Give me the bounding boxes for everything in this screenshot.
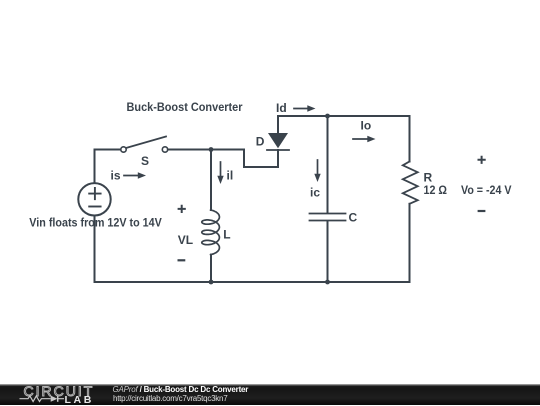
voltage source minus sign xyxy=(89,206,100,208)
label minus VL xyxy=(179,259,185,261)
svg-text:D: D xyxy=(256,135,265,149)
current arrow is xyxy=(124,175,139,177)
resistor R zigzag xyxy=(403,162,418,204)
svg-text:Id: Id xyxy=(276,101,287,115)
wire right rail top xyxy=(409,116,411,162)
svg-text:12 Ω: 12 Ω xyxy=(424,183,448,197)
node B junction dot top of capacitor xyxy=(325,114,330,119)
label plus Vo xyxy=(479,157,485,163)
switch S left contact xyxy=(121,147,126,152)
wire bottom rail xyxy=(95,281,410,283)
wire inductor to bottom rail xyxy=(210,255,212,282)
svg-text:VL: VL xyxy=(178,233,193,247)
label minus Vo xyxy=(479,210,485,212)
wire diode up to top rail xyxy=(278,116,328,133)
wire switch to node A xyxy=(168,149,244,151)
wire step to diode xyxy=(244,150,278,168)
inductor L coil xyxy=(202,210,220,255)
svg-text:ic: ic xyxy=(310,186,320,200)
footer logo schematic line with resistor and diode xyxy=(19,394,67,404)
footer logo LAB xyxy=(65,394,94,406)
current arrow ic xyxy=(317,160,319,175)
wire node A down to inductor xyxy=(210,150,212,211)
switch S right contact xyxy=(162,147,167,152)
svg-text:Buck-Boost Converter: Buck-Boost Converter xyxy=(127,100,243,114)
voltage source V1 circle xyxy=(78,183,110,215)
node inductor bottom junction dot xyxy=(209,280,214,285)
svg-text:Vo = -24 V: Vo = -24 V xyxy=(461,183,512,197)
svg-text:il: il xyxy=(227,168,234,182)
capacitor C bottom plate xyxy=(310,220,346,222)
svg-text:L: L xyxy=(223,228,230,242)
voltage source plus sign xyxy=(89,188,100,199)
svg-text:S: S xyxy=(141,154,149,168)
capacitor C top plate xyxy=(310,213,346,215)
current arrow il xyxy=(220,162,222,177)
current arrow Io xyxy=(353,138,369,140)
wire left rail bottom xyxy=(94,216,96,283)
switch S blade xyxy=(126,137,166,149)
svg-text:Vin floats from 12V to 14V: Vin floats from 12V to 14V xyxy=(29,216,162,230)
svg-text:Io: Io xyxy=(361,118,372,132)
label plus VL xyxy=(179,206,185,212)
footer logo CIRCUIT xyxy=(24,383,95,399)
wire right rail bottom xyxy=(409,204,411,282)
footer black bar xyxy=(0,384,540,405)
wire top rail node B to right rail xyxy=(328,115,410,117)
wire left rail top (source to switch corner) xyxy=(95,150,121,184)
node capacitor bottom junction dot xyxy=(325,280,330,285)
wire capacitor bottom xyxy=(327,221,329,282)
diode D triangle xyxy=(268,133,288,148)
current arrow Id xyxy=(294,108,309,110)
diode D cathode bar xyxy=(267,149,289,151)
svg-text:C: C xyxy=(349,210,358,224)
node A junction dot xyxy=(209,147,214,152)
footer url xyxy=(113,394,227,403)
wire capacitor top xyxy=(327,116,329,213)
footer title xyxy=(113,385,249,394)
svg-text:is: is xyxy=(111,168,121,182)
